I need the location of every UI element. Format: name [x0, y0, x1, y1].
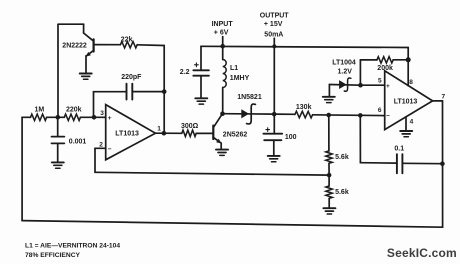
svg-text:2N2222: 2N2222: [62, 42, 87, 49]
svg-text:SeekIC.com: SeekIC.com: [387, 246, 457, 260]
svg-text:LT1013: LT1013: [394, 99, 418, 106]
svg-text:1: 1: [157, 125, 161, 132]
svg-text:−: −: [386, 112, 390, 119]
svg-text:1MHY: 1MHY: [230, 75, 250, 82]
svg-text:220k: 220k: [66, 106, 82, 113]
svg-text:2.2: 2.2: [180, 69, 190, 76]
svg-text:+: +: [386, 83, 390, 90]
svg-text:2N5262: 2N5262: [223, 131, 248, 138]
svg-text:5.6k: 5.6k: [335, 154, 349, 161]
svg-text:LT1013: LT1013: [115, 131, 139, 138]
svg-text:5: 5: [378, 77, 382, 84]
svg-text:130k: 130k: [296, 104, 312, 111]
svg-text:100: 100: [285, 134, 297, 141]
svg-text:1.2V: 1.2V: [338, 69, 353, 76]
svg-text:OUTPUT: OUTPUT: [260, 13, 290, 20]
svg-text:3: 3: [100, 110, 104, 117]
svg-text:+ 15V: + 15V: [264, 21, 283, 28]
svg-text:300Ω: 300Ω: [181, 123, 199, 130]
svg-text:7: 7: [442, 93, 446, 100]
svg-text:L1: L1: [230, 65, 238, 72]
svg-text:6: 6: [378, 107, 382, 114]
svg-text:+ 6V: + 6V: [214, 29, 229, 36]
svg-text:220pF: 220pF: [121, 74, 142, 81]
svg-text:2: 2: [99, 141, 103, 148]
svg-text:−: −: [108, 146, 112, 153]
svg-text:INPUT: INPUT: [212, 21, 234, 28]
svg-text:+: +: [108, 115, 112, 122]
svg-text:4: 4: [410, 119, 414, 126]
svg-text:5.6k: 5.6k: [335, 189, 349, 196]
svg-text:22k: 22k: [121, 36, 133, 43]
svg-text:1N5821: 1N5821: [237, 94, 262, 101]
svg-text:200k: 200k: [377, 65, 393, 72]
svg-text:1M: 1M: [35, 106, 45, 113]
svg-text:L1 = AIE—VERNITRON 24-104: L1 = AIE—VERNITRON 24-104: [25, 243, 120, 250]
svg-text:78% EFFICIENCY: 78% EFFICIENCY: [25, 252, 81, 259]
svg-text:LT1004: LT1004: [332, 60, 356, 67]
svg-text:0.1: 0.1: [394, 146, 404, 153]
svg-text:8: 8: [409, 79, 413, 86]
svg-text:0.001: 0.001: [69, 138, 87, 145]
svg-text:50mA: 50mA: [264, 31, 283, 38]
